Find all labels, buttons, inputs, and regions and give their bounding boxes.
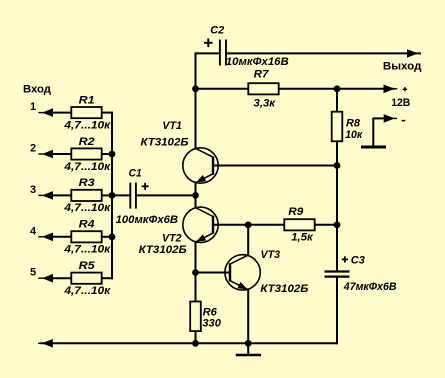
wire bottom bus bbox=[41, 342, 338, 344]
svg-text:VT3: VT3 bbox=[261, 249, 281, 261]
svg-text:2: 2 bbox=[30, 143, 36, 155]
svg-text:4,7...10к: 4,7...10к bbox=[63, 202, 112, 214]
wire to +12V terminal bbox=[337, 88, 394, 90]
wire input 5 to R5 bbox=[53, 277, 71, 279]
input arrow 2 bbox=[38, 153, 53, 155]
resistor R3 bbox=[71, 190, 101, 201]
svg-text:R6: R6 bbox=[203, 306, 218, 318]
svg-text:1: 1 bbox=[30, 101, 36, 113]
junction R9 / C3 wire bbox=[334, 221, 341, 228]
minus sign bbox=[402, 120, 406, 122]
wire VT3 emitter down to bus bbox=[247, 289, 249, 343]
svg-text:R1: R1 bbox=[79, 94, 95, 106]
wire R9 to right rail bbox=[315, 224, 337, 226]
wire input 3 to R3 bbox=[53, 194, 71, 196]
wire VT2 emitter node to VT3 base bbox=[196, 272, 231, 274]
junction VT2 base / R9 / VT3 collector bbox=[245, 221, 252, 228]
svg-text:Выход: Выход bbox=[383, 61, 422, 73]
bottom bus arrow (common) bbox=[38, 342, 53, 344]
wire input 2 to R2 bbox=[53, 153, 71, 155]
resistor R7 bbox=[248, 83, 278, 94]
C2 plus sign bbox=[204, 39, 213, 48]
resistor R4 bbox=[71, 231, 101, 242]
wire R8 node down to R9 node bbox=[336, 166, 338, 225]
resistor R1 bbox=[71, 107, 101, 118]
wire R6 to bottom bus bbox=[195, 331, 197, 343]
resistor R6 bbox=[190, 302, 201, 332]
svg-text:10мкФх16В: 10мкФх16В bbox=[226, 56, 289, 68]
wire VT1 collector up to C2 line bbox=[195, 52, 197, 148]
resistor R8 bbox=[332, 112, 343, 142]
svg-text:R8: R8 bbox=[346, 118, 361, 130]
output arrow bbox=[405, 52, 421, 54]
plus sign 12V bbox=[403, 87, 407, 91]
wire R2 to input bus bbox=[102, 153, 113, 155]
junction input bus row 2 bbox=[109, 151, 116, 158]
capacitor C3 (electrolytic) bbox=[325, 272, 350, 277]
wire R7 to +12V rail bbox=[279, 88, 337, 90]
wire bus to C1 bbox=[112, 194, 130, 196]
wire VT1 emitter down to node bbox=[195, 183, 197, 195]
wire VT3 collector up to R9 node bbox=[247, 225, 249, 255]
svg-text:10к: 10к bbox=[345, 129, 363, 141]
wire VT2 emitter down bbox=[195, 243, 197, 273]
svg-text:4,7...10к: 4,7...10к bbox=[63, 161, 112, 173]
junction R6 / bottom bus bbox=[192, 340, 199, 347]
svg-text:47мкФх6В: 47мкФх6В bbox=[343, 281, 397, 293]
resistor R2 bbox=[71, 148, 101, 159]
svg-text:5: 5 bbox=[30, 267, 36, 279]
svg-text:100мкФх6В: 100мкФх6В bbox=[116, 214, 179, 226]
svg-text:КТ3102Б: КТ3102Б bbox=[260, 283, 308, 295]
junction input bus row 4 bbox=[109, 233, 116, 240]
svg-text:1,5к: 1,5к bbox=[291, 231, 314, 243]
wire C2 to output bbox=[226, 52, 421, 54]
input arrow 3 bbox=[38, 194, 53, 196]
wire node down to VT2 collector bbox=[195, 195, 197, 208]
capacitor C1 bbox=[130, 183, 136, 209]
svg-text:R7: R7 bbox=[254, 69, 270, 81]
wire R8 to VT1 base node bbox=[336, 141, 338, 165]
svg-text:R4: R4 bbox=[79, 219, 95, 231]
transistor VT2 bbox=[183, 207, 218, 242]
wire input bus vertical bbox=[111, 112, 113, 280]
svg-text:12В: 12В bbox=[391, 97, 410, 109]
wire C1 to VT1/VT2 node bbox=[136, 194, 196, 196]
svg-text:4,7...10к: 4,7...10к bbox=[63, 244, 112, 256]
wire input 1 to R1 bbox=[53, 112, 71, 114]
C1 plus sign bbox=[142, 183, 149, 190]
svg-text:4,7...10к: 4,7...10к bbox=[63, 285, 112, 297]
transistor VT1 bbox=[183, 148, 218, 183]
capacitor C2 bbox=[220, 40, 226, 66]
wire +12V rail to R8 bbox=[336, 89, 338, 112]
svg-text:R2: R2 bbox=[79, 136, 95, 148]
junction R7 left / collector wire bbox=[192, 85, 199, 92]
junction VT2 emitter / R6 / VT3 base bbox=[192, 269, 199, 276]
input arrow 5 bbox=[38, 277, 53, 279]
negative terminal of 12V supply bbox=[361, 114, 397, 147]
resistor R9 bbox=[284, 219, 314, 230]
svg-text:330: 330 bbox=[202, 318, 221, 330]
svg-text:R5: R5 bbox=[79, 260, 96, 272]
junction input bus row 3 bbox=[109, 192, 116, 199]
svg-text:R9: R9 bbox=[288, 206, 304, 218]
svg-text:Вход: Вход bbox=[23, 84, 51, 96]
svg-text:C2: C2 bbox=[210, 25, 224, 37]
svg-text:R3: R3 bbox=[79, 177, 95, 189]
wire VT1 base to R8 node bbox=[213, 165, 337, 167]
input arrow 4 bbox=[38, 236, 53, 238]
wire to C2 left plate bbox=[195, 52, 221, 54]
wire input 4 to R4 bbox=[53, 236, 71, 238]
wire to R6 top bbox=[195, 273, 197, 302]
wire R9 node to C3 bbox=[336, 225, 338, 271]
junction R8 / VT1 base bbox=[334, 162, 341, 169]
wire to R7 bbox=[196, 88, 249, 90]
svg-text:КТ3102Б: КТ3102Б bbox=[139, 244, 187, 256]
ground bbox=[236, 343, 261, 355]
wire R1 to input bus bbox=[102, 112, 113, 114]
wire C3 to bottom bus corner bbox=[336, 277, 338, 345]
junction C1 / VT1 emitter / VT2 collector bbox=[192, 192, 199, 199]
svg-text:VT1: VT1 bbox=[162, 120, 182, 132]
wire R3 to input bus bbox=[102, 194, 113, 196]
transistor VT3 bbox=[225, 255, 260, 290]
wire node to R9 bbox=[248, 224, 284, 226]
C3 plus sign bbox=[342, 256, 348, 262]
svg-text:VT2: VT2 bbox=[162, 232, 182, 244]
svg-text:4,7...10к: 4,7...10к bbox=[63, 119, 112, 131]
svg-text:4: 4 bbox=[30, 225, 37, 237]
svg-text:C3: C3 bbox=[351, 254, 365, 266]
wire VT2 base to R9 node bbox=[213, 224, 248, 226]
resistor R5 bbox=[71, 273, 101, 284]
wire R5 to input bus bbox=[102, 277, 113, 279]
svg-text:C1: C1 bbox=[129, 168, 142, 180]
svg-text:3,3к: 3,3к bbox=[254, 97, 277, 109]
svg-text:КТ3102Б: КТ3102Б bbox=[141, 137, 189, 149]
svg-text:3: 3 bbox=[30, 184, 36, 196]
+12V arrow bbox=[382, 88, 398, 90]
junction VT3 emitter / ground bbox=[245, 340, 252, 347]
wire R4 to input bus bbox=[102, 236, 113, 238]
junction R7 / R8 top bbox=[334, 85, 341, 92]
input arrow 1 bbox=[38, 112, 53, 114]
